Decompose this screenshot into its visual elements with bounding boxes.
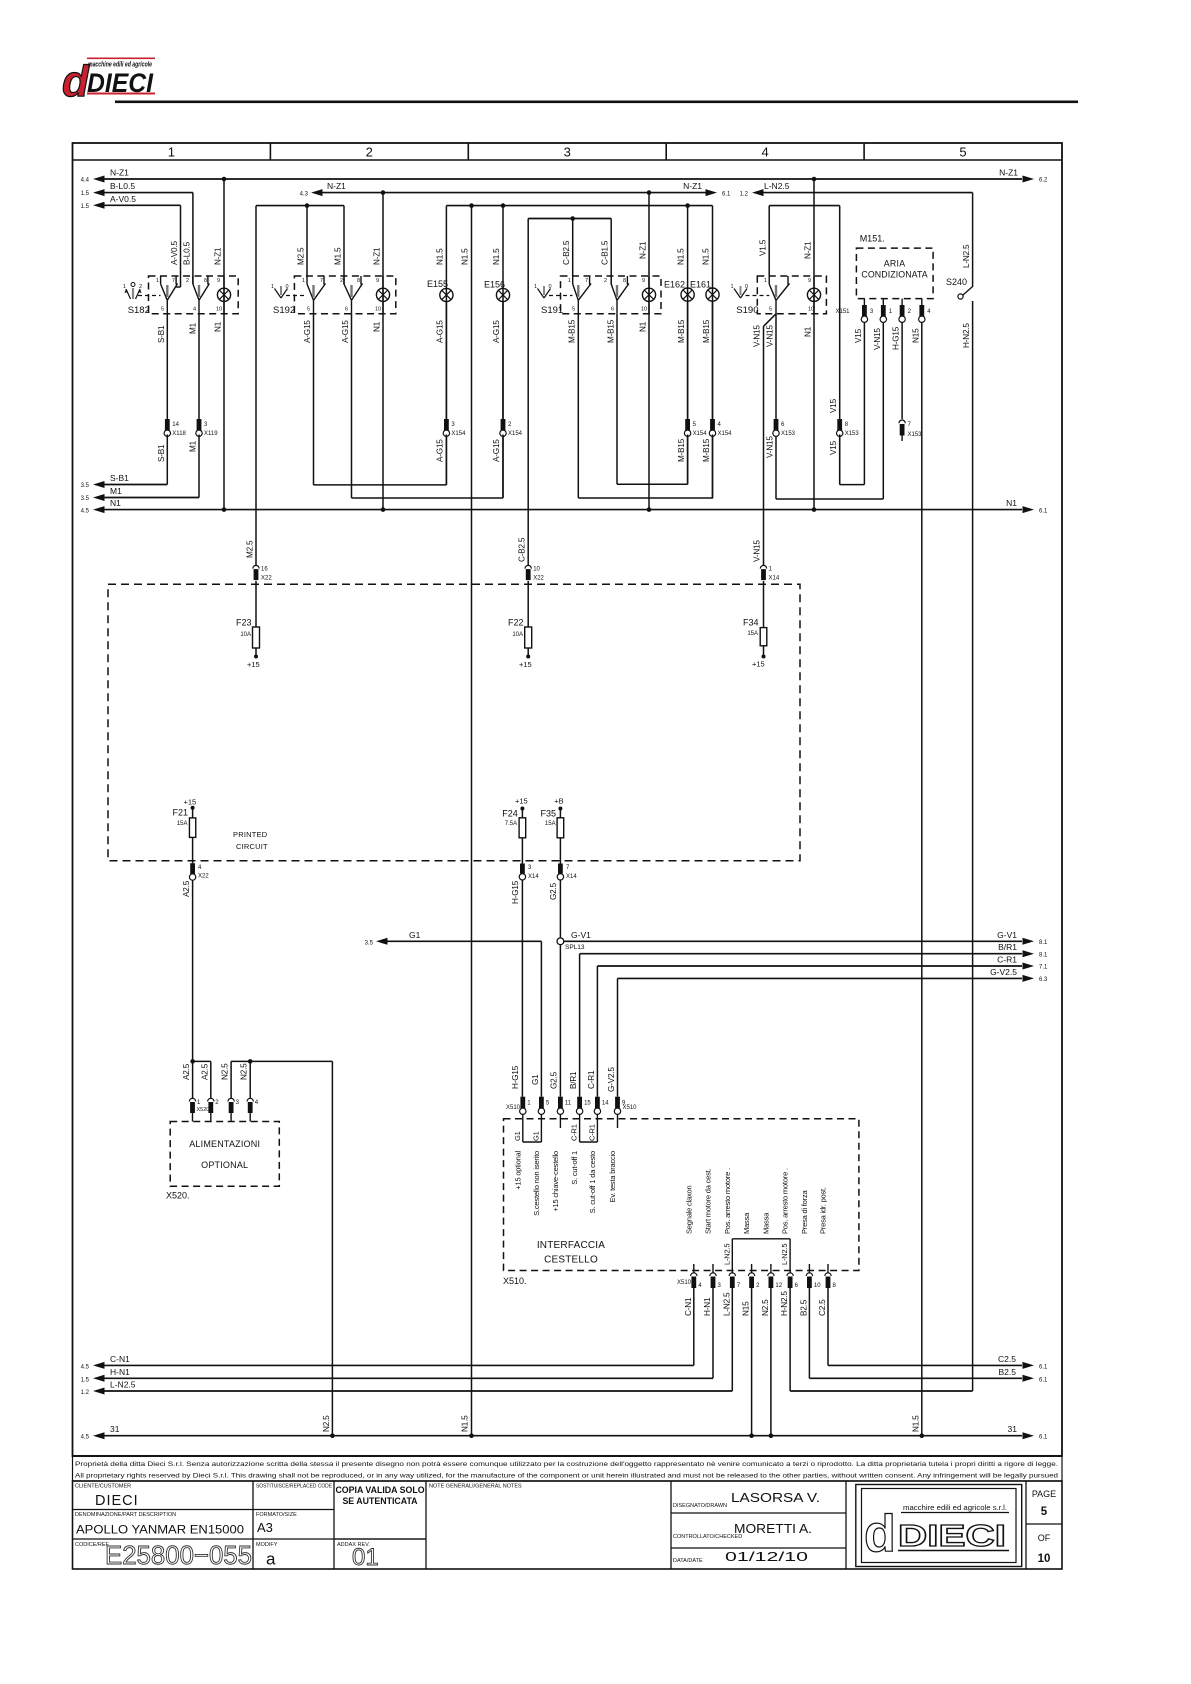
svg-text:E25800−055: E25800−055 xyxy=(105,1540,252,1570)
svg-text:d: d xyxy=(62,57,90,106)
svg-text:C-B2.5: C-B2.5 xyxy=(518,537,527,562)
svg-text:V15: V15 xyxy=(829,440,838,455)
svg-text:14: 14 xyxy=(602,1101,609,1107)
svg-text:N2.5: N2.5 xyxy=(761,1299,770,1316)
svg-text:7: 7 xyxy=(320,278,323,284)
svg-text:B2.5: B2.5 xyxy=(999,1367,1017,1377)
svg-text:4: 4 xyxy=(193,307,196,313)
svg-text:F35: F35 xyxy=(540,808,556,818)
svg-text:N-Z1: N-Z1 xyxy=(327,181,346,191)
svg-text:OPTIONAL: OPTIONAL xyxy=(201,1160,248,1170)
svg-text:N1.5: N1.5 xyxy=(702,248,711,265)
svg-text:3.5: 3.5 xyxy=(81,496,90,502)
svg-text:N-Z1: N-Z1 xyxy=(373,247,382,265)
svg-text:M-B15: M-B15 xyxy=(702,438,711,462)
svg-text:DIECI: DIECI xyxy=(95,1493,139,1509)
svg-text:+15: +15 xyxy=(184,798,197,807)
svg-text:A-G15: A-G15 xyxy=(492,320,501,343)
svg-text:2: 2 xyxy=(366,145,373,160)
svg-text:C-N1: C-N1 xyxy=(684,1297,693,1316)
svg-text:M2.5: M2.5 xyxy=(246,540,255,558)
svg-text:6: 6 xyxy=(611,307,614,313)
svg-text:Pos. arresto motore .: Pos. arresto motore . xyxy=(723,1168,732,1234)
svg-text:S191: S191 xyxy=(541,305,563,316)
svg-text:DATA/DATE: DATA/DATE xyxy=(673,1558,703,1564)
svg-text:9: 9 xyxy=(808,278,811,284)
svg-text:N-Z1: N-Z1 xyxy=(999,168,1018,178)
svg-text:CONTROLLATO/CHECKED: CONTROLLATO/CHECKED xyxy=(673,1534,742,1540)
svg-text:4.4: 4.4 xyxy=(81,178,90,184)
svg-text:S-B1: S-B1 xyxy=(157,444,166,462)
svg-text:X520: X520 xyxy=(197,1107,210,1113)
svg-text:DISEGNATO/DRAWN: DISEGNATO/DRAWN xyxy=(673,1503,727,1509)
svg-text:macchire edili ed agricole s.r: macchire edili ed agricole s.r.l. xyxy=(903,1505,1007,1512)
svg-text:G-V1: G-V1 xyxy=(571,930,591,940)
svg-text:6.2: 6.2 xyxy=(1039,178,1048,184)
svg-text:10: 10 xyxy=(216,307,222,313)
svg-text:N2.5: N2.5 xyxy=(322,1415,331,1432)
svg-text:8: 8 xyxy=(623,278,626,284)
svg-text:CESTELLO: CESTELLO xyxy=(544,1255,598,1266)
svg-text:N2.5: N2.5 xyxy=(221,1063,230,1080)
svg-text:H-G15: H-G15 xyxy=(511,880,520,904)
svg-text:Presa di forza: Presa di forza xyxy=(800,1190,809,1234)
svg-text:N1: N1 xyxy=(1006,498,1017,508)
svg-text:N1: N1 xyxy=(373,321,382,332)
svg-text:N1.5: N1.5 xyxy=(911,1415,920,1432)
svg-text:G1: G1 xyxy=(513,1131,522,1141)
svg-text:A-V0.5: A-V0.5 xyxy=(110,194,136,204)
svg-text:V-N15: V-N15 xyxy=(765,436,774,458)
svg-text:L-N2.5: L-N2.5 xyxy=(722,1292,731,1316)
svg-text:Segnale claxon: Segnale claxon xyxy=(684,1185,693,1234)
svg-text:10: 10 xyxy=(814,1283,821,1289)
svg-text:X14: X14 xyxy=(528,874,539,880)
svg-text:All proprietary rights reserve: All proprietary rights reserved by Dieci… xyxy=(75,1473,1059,1480)
svg-text:01/12/10: 01/12/10 xyxy=(725,1549,808,1564)
svg-text:A2.5: A2.5 xyxy=(200,1063,209,1080)
svg-text:X510: X510 xyxy=(623,1105,638,1111)
svg-text:X154: X154 xyxy=(693,431,708,437)
svg-text:5: 5 xyxy=(161,307,164,313)
svg-text:7.1: 7.1 xyxy=(1039,965,1048,971)
svg-text:FORMATO/SIZE: FORMATO/SIZE xyxy=(256,1512,297,1518)
svg-text:+B: +B xyxy=(554,797,563,806)
svg-text:M-B15: M-B15 xyxy=(677,319,686,343)
svg-text:X22: X22 xyxy=(261,575,272,581)
svg-text:+15: +15 xyxy=(519,660,532,669)
svg-text:N1.5: N1.5 xyxy=(461,248,470,265)
svg-text:Presa idr. post.: Presa idr. post. xyxy=(819,1187,828,1234)
svg-text:10: 10 xyxy=(1038,1553,1051,1565)
svg-text:1.5: 1.5 xyxy=(81,1377,90,1383)
svg-text:16: 16 xyxy=(261,566,268,572)
svg-text:X154: X154 xyxy=(451,431,466,437)
svg-text:10: 10 xyxy=(533,566,540,572)
svg-text:APOLLO YANMAR EN15000: APOLLO YANMAR EN15000 xyxy=(76,1523,244,1537)
svg-text:5: 5 xyxy=(572,307,575,313)
svg-text:N1: N1 xyxy=(110,498,121,508)
svg-text:macchine edili ed agricole: macchine edili ed agricole xyxy=(88,62,152,69)
svg-text:6.1: 6.1 xyxy=(1039,508,1048,514)
svg-text:E162: E162 xyxy=(664,280,685,290)
svg-text:A-G15: A-G15 xyxy=(303,320,312,343)
svg-text:L-N2.5: L-N2.5 xyxy=(110,1380,136,1390)
svg-text:+15: +15 xyxy=(515,797,528,806)
svg-text:X118: X118 xyxy=(172,431,186,437)
svg-text:M-B15: M-B15 xyxy=(607,319,616,343)
svg-text:F22: F22 xyxy=(508,618,524,628)
svg-text:4.3: 4.3 xyxy=(300,192,309,198)
svg-text:M1: M1 xyxy=(110,486,122,496)
svg-text:G1: G1 xyxy=(409,930,421,940)
svg-text:C-B1.5: C-B1.5 xyxy=(601,240,610,265)
svg-text:C2.5: C2.5 xyxy=(998,1354,1016,1364)
svg-text:9: 9 xyxy=(642,278,645,284)
svg-text:9: 9 xyxy=(217,278,220,284)
svg-text:10A: 10A xyxy=(512,632,523,638)
svg-text:DENOMINAZIONE/PART DESCRIPTION: DENOMINAZIONE/PART DESCRIPTION xyxy=(75,1512,176,1518)
svg-text:1: 1 xyxy=(123,284,126,290)
svg-text:N1: N1 xyxy=(804,326,813,337)
svg-text:1.5: 1.5 xyxy=(81,191,90,197)
svg-text:A2.5: A2.5 xyxy=(182,1063,191,1080)
svg-text:2: 2 xyxy=(186,278,189,284)
svg-text:31: 31 xyxy=(110,1424,120,1434)
svg-text:M1: M1 xyxy=(189,322,198,334)
svg-text:3: 3 xyxy=(564,145,571,160)
svg-text:8.1: 8.1 xyxy=(1039,952,1048,958)
svg-text:PRINTED: PRINTED xyxy=(233,830,268,839)
svg-text:1: 1 xyxy=(534,284,537,290)
svg-text:MODIFY: MODIFY xyxy=(256,1542,278,1548)
svg-text:CIRCUIT: CIRCUIT xyxy=(236,842,268,851)
svg-text:N-Z1: N-Z1 xyxy=(804,241,813,259)
svg-text:A-G15: A-G15 xyxy=(436,320,445,343)
svg-text:X510.: X510. xyxy=(503,1276,527,1286)
svg-text:A3: A3 xyxy=(257,1520,273,1535)
svg-text:1: 1 xyxy=(156,278,159,284)
svg-text:L-N2.5: L-N2.5 xyxy=(722,1244,731,1265)
svg-text:M2.5: M2.5 xyxy=(297,247,306,265)
svg-text:H-N1: H-N1 xyxy=(110,1367,130,1377)
svg-text:X119: X119 xyxy=(204,431,218,437)
svg-text:H-N1: H-N1 xyxy=(703,1297,712,1316)
svg-text:1: 1 xyxy=(271,284,274,290)
svg-text:X153: X153 xyxy=(845,431,860,437)
svg-text:X153: X153 xyxy=(908,432,923,438)
svg-text:H-N2.5: H-N2.5 xyxy=(962,323,971,348)
svg-text:F21: F21 xyxy=(172,807,188,817)
svg-text:5: 5 xyxy=(769,307,772,313)
svg-text:S182: S182 xyxy=(128,305,150,316)
svg-text:S190: S190 xyxy=(736,305,758,316)
svg-text:M-B15: M-B15 xyxy=(568,319,577,343)
svg-text:N-Z1: N-Z1 xyxy=(683,181,702,191)
svg-text:+15 optional: +15 optional xyxy=(513,1150,522,1189)
svg-text:14: 14 xyxy=(172,422,179,428)
svg-text:A-V0.5: A-V0.5 xyxy=(170,241,179,265)
svg-text:N1.5: N1.5 xyxy=(436,248,445,265)
svg-text:6.3: 6.3 xyxy=(1039,977,1048,983)
svg-text:F23: F23 xyxy=(236,618,252,628)
svg-text:C-R1: C-R1 xyxy=(570,1124,579,1141)
svg-text:E155: E155 xyxy=(427,279,448,289)
svg-text:G1: G1 xyxy=(531,1074,540,1085)
svg-text:1: 1 xyxy=(731,284,734,290)
svg-text:ALIMENTAZIONI: ALIMENTAZIONI xyxy=(189,1139,260,1149)
svg-text:11: 11 xyxy=(565,1101,572,1107)
svg-text:1: 1 xyxy=(568,278,571,284)
svg-text:C-R1: C-R1 xyxy=(997,955,1017,965)
svg-text:M1: M1 xyxy=(189,440,198,452)
svg-text:15: 15 xyxy=(584,1101,591,1107)
svg-text:G2.5: G2.5 xyxy=(549,882,558,900)
svg-text:M-B15: M-B15 xyxy=(702,319,711,343)
svg-text:DIECI: DIECI xyxy=(898,1518,1006,1553)
svg-text:V15: V15 xyxy=(854,328,863,343)
svg-text:+15: +15 xyxy=(247,660,260,669)
svg-text:+15: +15 xyxy=(752,660,765,669)
svg-text:MORETTI A.: MORETTI A. xyxy=(734,1522,812,1536)
svg-text:15A: 15A xyxy=(177,821,188,827)
svg-text:X151: X151 xyxy=(835,309,850,315)
svg-text:S-B1: S-B1 xyxy=(157,325,166,343)
svg-text:B/R1: B/R1 xyxy=(998,942,1017,952)
svg-text:1.2: 1.2 xyxy=(740,192,749,198)
svg-text:V-N15: V-N15 xyxy=(753,325,762,347)
svg-text:X510: X510 xyxy=(506,1105,521,1111)
svg-text:L-N2.5: L-N2.5 xyxy=(764,181,790,191)
svg-text:6.1: 6.1 xyxy=(1039,1435,1048,1441)
svg-text:A2.5: A2.5 xyxy=(182,880,191,897)
svg-text:N1.5: N1.5 xyxy=(492,248,501,265)
svg-text:10: 10 xyxy=(641,307,647,313)
svg-text:S. cut-off 1 da cesto: S. cut-off 1 da cesto xyxy=(588,1151,597,1213)
svg-text:6.1: 6.1 xyxy=(722,192,731,198)
svg-text:1: 1 xyxy=(302,278,305,284)
svg-text:L-N2.5: L-N2.5 xyxy=(962,244,971,268)
svg-text:S.cestello non iserito: S.cestello non iserito xyxy=(532,1151,541,1216)
svg-text:8: 8 xyxy=(204,278,207,284)
svg-text:15A: 15A xyxy=(545,821,556,827)
svg-text:3.5: 3.5 xyxy=(365,940,374,946)
svg-text:G1: G1 xyxy=(532,1131,541,1141)
svg-text:8: 8 xyxy=(357,278,360,284)
svg-text:N15: N15 xyxy=(911,328,920,343)
svg-text:G2.5: G2.5 xyxy=(550,1071,559,1089)
svg-text:6.1: 6.1 xyxy=(1039,1377,1048,1383)
svg-text:5: 5 xyxy=(959,145,966,160)
svg-text:N-Z1: N-Z1 xyxy=(214,247,223,265)
svg-text:X22: X22 xyxy=(533,575,544,581)
svg-text:31: 31 xyxy=(1008,1424,1018,1434)
svg-text:01: 01 xyxy=(352,1544,379,1571)
svg-text:X14: X14 xyxy=(566,874,577,880)
svg-text:N2.5: N2.5 xyxy=(240,1063,249,1080)
svg-text:4: 4 xyxy=(761,145,768,160)
svg-text:5: 5 xyxy=(307,307,310,313)
svg-text:E156: E156 xyxy=(484,280,505,290)
svg-text:X520.: X520. xyxy=(166,1191,190,1201)
svg-text:X22: X22 xyxy=(198,874,209,880)
svg-text:1: 1 xyxy=(168,145,175,160)
svg-text:2: 2 xyxy=(604,278,607,284)
svg-text:B/R1: B/R1 xyxy=(569,1071,578,1089)
svg-text:Start motore da cest.: Start motore da cest. xyxy=(704,1168,713,1234)
svg-text:B2.5: B2.5 xyxy=(799,1299,808,1316)
svg-text:1.2: 1.2 xyxy=(81,1390,90,1396)
svg-text:N-Z1: N-Z1 xyxy=(639,241,648,259)
svg-text:S240: S240 xyxy=(946,277,967,287)
svg-text:F34: F34 xyxy=(743,618,759,628)
svg-text:V15: V15 xyxy=(829,398,838,413)
svg-text:5: 5 xyxy=(1041,1506,1048,1518)
svg-text:S-B1: S-B1 xyxy=(110,473,129,483)
svg-text:A-G15: A-G15 xyxy=(492,439,501,462)
svg-text:2: 2 xyxy=(340,278,343,284)
svg-text:H-N2.5: H-N2.5 xyxy=(780,1291,789,1316)
svg-text:CLIENTE/CUSTOMER: CLIENTE/CUSTOMER xyxy=(75,1484,131,1490)
svg-text:3.5: 3.5 xyxy=(81,483,90,489)
svg-text:C-R1: C-R1 xyxy=(588,1124,597,1141)
svg-text:4.5: 4.5 xyxy=(81,1364,90,1370)
svg-text:X154: X154 xyxy=(508,431,523,437)
svg-text:B-L0.5: B-L0.5 xyxy=(110,181,135,191)
svg-text:9: 9 xyxy=(376,278,379,284)
svg-text:7: 7 xyxy=(585,278,588,284)
svg-text:SOSTITUISCE/REPLACED CODE: SOSTITUISCE/REPLACED CODE xyxy=(256,1484,332,1490)
svg-text:N1.5: N1.5 xyxy=(677,248,686,265)
svg-text:6.1: 6.1 xyxy=(1039,1364,1048,1370)
svg-text:V1.5: V1.5 xyxy=(759,239,768,256)
svg-text:4.5: 4.5 xyxy=(81,1435,90,1441)
svg-text:M151.: M151. xyxy=(860,234,885,244)
svg-text:SPL13: SPL13 xyxy=(565,944,585,951)
svg-text:X510: X510 xyxy=(677,1280,692,1286)
svg-text:N15: N15 xyxy=(742,1301,751,1316)
svg-text:G-V2.5: G-V2.5 xyxy=(607,1067,616,1092)
svg-text:S. cut-off 1: S. cut-off 1 xyxy=(570,1151,579,1185)
svg-text:+15 chiave-cestello: +15 chiave-cestello xyxy=(551,1151,560,1212)
svg-text:Pos. arresto motore .: Pos. arresto motore . xyxy=(781,1168,790,1234)
svg-text:S192: S192 xyxy=(273,305,295,316)
svg-text:10: 10 xyxy=(375,307,381,313)
svg-text:10A: 10A xyxy=(240,632,251,638)
svg-text:V-N15: V-N15 xyxy=(873,328,882,350)
svg-text:F24: F24 xyxy=(502,808,518,818)
svg-text:a: a xyxy=(266,1550,276,1569)
svg-text:6: 6 xyxy=(345,307,348,313)
svg-text:H-G15: H-G15 xyxy=(892,326,901,350)
svg-text:M1.5: M1.5 xyxy=(334,247,343,265)
svg-text:1.5: 1.5 xyxy=(81,204,90,210)
svg-text:15A: 15A xyxy=(747,631,758,637)
svg-text:SE AUTENTICATA: SE AUTENTICATA xyxy=(342,1496,418,1506)
svg-text:V-N15: V-N15 xyxy=(765,325,774,347)
svg-text:INTERFACCIA: INTERFACCIA xyxy=(537,1240,605,1251)
svg-text:4.5: 4.5 xyxy=(81,508,90,514)
svg-text:C2.5: C2.5 xyxy=(818,1299,827,1316)
svg-text:Massa: Massa xyxy=(761,1212,770,1234)
svg-text:V-N15: V-N15 xyxy=(753,540,762,562)
svg-text:CONDIZIONATA: CONDIZIONATA xyxy=(861,270,927,280)
svg-text:COPIA VALIDA SOLO: COPIA VALIDA SOLO xyxy=(335,1485,424,1495)
svg-text:d: d xyxy=(864,1505,896,1563)
svg-text:B-L0.5: B-L0.5 xyxy=(182,241,191,265)
svg-text:G-V2.5: G-V2.5 xyxy=(990,967,1017,977)
svg-text:G-V1: G-V1 xyxy=(997,930,1017,940)
svg-text:PAGE: PAGE xyxy=(1032,1489,1056,1499)
svg-text:X14: X14 xyxy=(769,575,780,581)
svg-text:A-G15: A-G15 xyxy=(341,320,350,343)
svg-text:Proprietà della ditta Dieci S.: Proprietà della ditta Dieci S.r.l. Senza… xyxy=(75,1461,1058,1468)
svg-text:8.1: 8.1 xyxy=(1039,940,1048,946)
svg-text:Massa: Massa xyxy=(742,1212,751,1234)
svg-text:N1: N1 xyxy=(214,321,223,332)
svg-text:M-B15: M-B15 xyxy=(677,438,686,462)
svg-text:X154: X154 xyxy=(718,431,733,437)
svg-text:10: 10 xyxy=(808,307,814,313)
svg-text:7.5A: 7.5A xyxy=(505,821,517,827)
svg-text:LASORSA V.: LASORSA V. xyxy=(731,1491,820,1505)
svg-text:Ev. testa braccio: Ev. testa braccio xyxy=(608,1151,617,1203)
svg-text:A-G15: A-G15 xyxy=(436,439,445,462)
svg-text:L-N2.5: L-N2.5 xyxy=(780,1244,789,1265)
svg-text:7: 7 xyxy=(172,278,175,284)
svg-text:N-Z1: N-Z1 xyxy=(110,168,129,178)
svg-text:C-B2.5: C-B2.5 xyxy=(562,240,571,265)
svg-text:1: 1 xyxy=(764,278,767,284)
svg-text:H-G15: H-G15 xyxy=(511,1065,520,1089)
svg-text:N1.5: N1.5 xyxy=(461,1415,470,1432)
svg-text:C-R1: C-R1 xyxy=(587,1070,596,1089)
svg-text:X153: X153 xyxy=(781,431,796,437)
svg-text:N1: N1 xyxy=(639,321,648,332)
svg-text:ARIA: ARIA xyxy=(884,259,906,269)
svg-text:OF: OF xyxy=(1038,1533,1051,1543)
svg-text:12: 12 xyxy=(775,1283,782,1289)
svg-text:NOTE GENERALI/GENERAL NOTES: NOTE GENERALI/GENERAL NOTES xyxy=(429,1484,522,1490)
svg-text:C-N1: C-N1 xyxy=(110,1354,130,1364)
svg-text:E161: E161 xyxy=(690,280,711,290)
